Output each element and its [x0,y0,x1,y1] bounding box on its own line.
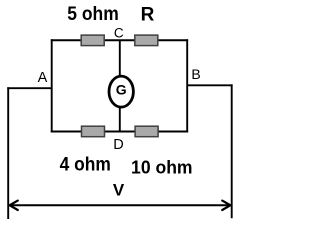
svg-text:10 ohm: 10 ohm [131,158,193,178]
svg-text:V: V [113,181,125,200]
svg-text:G: G [116,81,127,97]
wire: node C to galvanometer [119,40,121,76]
wire: left battery lead vertical [7,87,9,219]
galvanometer G [109,76,133,107]
svg-text:B: B [191,66,200,82]
wire: bridge left vertical (A junction) [51,39,53,132]
wire: right battery lead vertical [231,84,233,218]
resistor R (top right) [135,35,158,46]
svg-text:4 ohm: 4 ohm [60,155,111,176]
svg-text:D: D [113,137,123,153]
svg-text:A: A [38,70,48,86]
wire: bridge right vertical (B junction) [186,39,188,132]
svg-text:5 ohm: 5 ohm [67,4,119,25]
wire: bottom rail through D [51,131,188,133]
svg-text:C: C [114,26,124,41]
wire: galvanometer to node D [119,107,121,132]
wire: B horizontal lead [187,84,232,86]
resistor 10 ohm (bottom right) [135,126,158,137]
svg-text:R: R [141,5,155,26]
resistor 4 ohm (bottom left) [82,126,105,137]
wire: A horizontal lead [7,87,51,89]
wire: top rail A-C-B [51,39,188,41]
resistor 5 ohm (top left) [81,35,104,46]
voltage span double arrow [10,201,231,210]
